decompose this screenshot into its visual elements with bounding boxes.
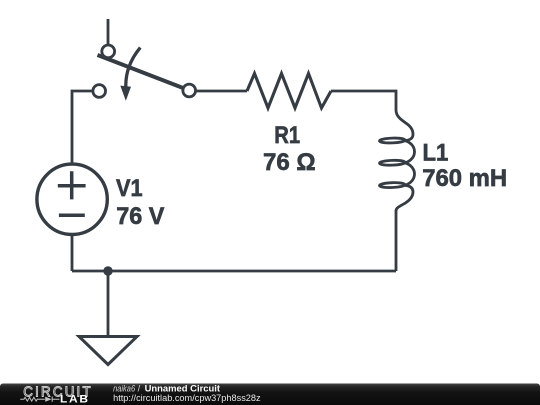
svg-text:naika6: naika6: [113, 383, 136, 393]
V1 plus sign: [58, 171, 86, 199]
junction node dot: [103, 266, 112, 275]
svg-text:/: /: [138, 383, 141, 393]
svg-text:760 mH: 760 mH: [422, 165, 507, 192]
resistor R1 zigzag: [247, 74, 331, 109]
switch SW1 actuation arrow arc: [126, 48, 141, 87]
svg-text:Unnamed Circuit: Unnamed Circuit: [145, 383, 220, 393]
wire ground stem: [107, 271, 110, 337]
wire from resistor to top-right corner and down to inductor: [331, 91, 396, 110]
V1 minus sign: [59, 214, 85, 218]
wire from inductor bottom to bottom-right corner: [395, 210, 398, 271]
switch left terminal circle: [93, 85, 106, 98]
switch throw terminal circle (top): [102, 45, 115, 58]
svg-text:L1: L1: [423, 140, 449, 167]
wire V1 bottom stub: [71, 235, 74, 272]
svg-text:http://circuitlab.com/cpw37ph8: http://circuitlab.com/cpw37ph8ss28z: [113, 393, 261, 404]
svg-text:V1: V1: [116, 175, 143, 202]
voltage source V1 circle: [37, 164, 107, 234]
inductor L1 loop 2: [379, 160, 405, 166]
wire bottom horizontal from V1 to inductor: [72, 270, 396, 273]
inductor L1 coil top elbow: [396, 110, 413, 140]
inductor L1 coil bottom elbow: [396, 185, 413, 211]
svg-text:LAB: LAB: [60, 393, 90, 405]
wire from left switch terminal to V1 top: [72, 91, 93, 166]
CircuitLab logo schematic squiggle (resistor + diode): [20, 397, 59, 402]
switch SW1 lever: [98, 55, 186, 89]
inductor L1 loop 3: [379, 182, 405, 188]
wire top stub of switch throw: [107, 19, 110, 45]
svg-text:76 Ω: 76 Ω: [263, 149, 316, 176]
CircuitLab logo wordmark CIRCUIT: [23, 383, 93, 400]
svg-text:76 V: 76 V: [116, 203, 164, 230]
switch arrow head: [120, 86, 131, 101]
ground symbol triangle: [79, 337, 137, 365]
inductor L1 right arc 1: [405, 141, 415, 163]
switch common terminal circle (right): [183, 84, 196, 97]
inductor L1 right arc 2: [405, 163, 415, 185]
svg-text:R1: R1: [274, 122, 300, 149]
inductor L1 loop 1: [379, 138, 405, 144]
wire from switch common to resistor: [196, 90, 248, 93]
